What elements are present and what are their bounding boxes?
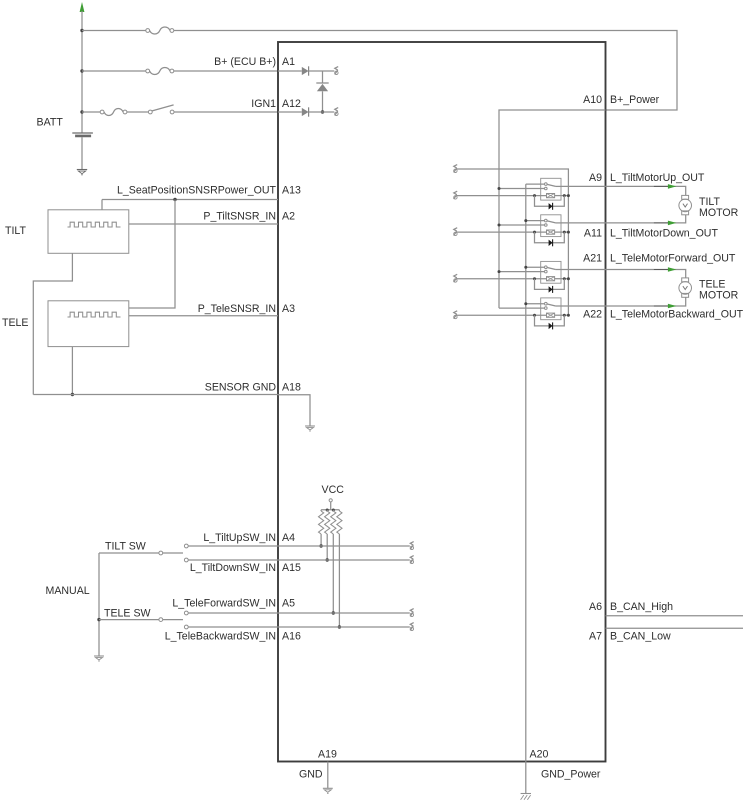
TELE SW backward contact	[184, 625, 188, 629]
junction R4/A16	[338, 625, 341, 628]
wire break (internal IGN)	[335, 108, 338, 112]
svg-text:A19: A19	[318, 749, 337, 761]
wire diode D1 to internal B+	[309, 70, 335, 72]
flyback diode loop K3	[535, 279, 565, 290]
wire L_TiltMotorUp_OUT to tilt motor	[606, 186, 686, 195]
relay K3 (tele forward) box	[541, 261, 561, 283]
wire internal A16 line	[278, 626, 410, 628]
resistor R2 (TiltDown pull-up)	[325, 511, 330, 534]
relay K1 (tilt up) upper contact	[545, 183, 548, 186]
wire battery to ground	[81, 137, 83, 169]
wire relay K4 (tele backward) output to pin	[561, 305, 606, 307]
TILT sensor pulse symbol	[68, 222, 121, 227]
wire break (coil feed)	[454, 165, 457, 169]
fuse F3	[100, 110, 104, 114]
svg-text:A15: A15	[282, 562, 301, 574]
wire TiltUp switch to pin A4	[188, 545, 278, 547]
junction coil left / diode	[533, 194, 536, 197]
wire pin A20 to chassis ground	[525, 762, 527, 794]
svg-text:A4: A4	[282, 532, 295, 544]
ECU connector box	[278, 42, 606, 762]
svg-text:A1: A1	[282, 56, 295, 68]
TILT SW common contact	[159, 551, 163, 555]
wire fuse F3 to ignition switch	[127, 111, 148, 113]
wire zener branch from B+ line	[322, 71, 324, 83]
relay K2 (tilt down) box	[541, 215, 561, 237]
svg-text:A22: A22	[583, 309, 602, 321]
svg-text:A12: A12	[282, 98, 301, 110]
wire tele motor return to L_TeleMotorBackward_OUT	[606, 297, 686, 306]
svg-text:A10: A10	[583, 94, 602, 106]
svg-text:B_CAN_High: B_CAN_High	[610, 601, 673, 613]
wire break (A16 internal)	[410, 623, 413, 627]
svg-text:TELE: TELE	[2, 317, 29, 329]
relay K1 (tilt up) upper contact feed	[526, 183, 545, 185]
wire relay common coil feed	[457, 169, 569, 315]
junction coil right / diode	[563, 314, 566, 317]
svg-text:A5: A5	[282, 598, 295, 610]
TILT SW up contact	[184, 544, 188, 548]
wire relay K1 (tilt up) coil to feed bus	[555, 195, 569, 197]
tilt motor M1	[682, 195, 689, 199]
wire relay K4 (tele backward) coil to feed bus	[555, 314, 569, 316]
wire VCC to resistor bank	[330, 502, 332, 510]
flyback diode D4	[549, 240, 553, 246]
resistor R4 (TeleBackward pull-up)	[337, 511, 342, 534]
wire break (internal B+)	[335, 67, 338, 71]
relay K2 (tilt down) coil	[547, 230, 555, 234]
wire L_TeleMotorForward_OUT to tele motor	[606, 270, 686, 278]
svg-text:A11: A11	[584, 228, 602, 240]
wire pin A1 to diode D1	[278, 70, 302, 72]
svg-text:P_TeleSNSR_IN: P_TeleSNSR_IN	[198, 303, 276, 315]
junction VCC bar right	[332, 509, 335, 512]
junction coil right / diode	[563, 194, 566, 197]
power flow arrow (green, up)	[80, 2, 85, 12]
svg-text:L_TeleForwardSW_IN: L_TeleForwardSW_IN	[172, 598, 276, 610]
tele motor M2	[682, 278, 689, 282]
wire tilt motor return to L_TiltMotorDown_OUT	[606, 215, 686, 223]
svg-text:A3: A3	[282, 303, 295, 315]
junction coil left / diode	[533, 314, 536, 317]
wire B+_Power feed to right side	[174, 31, 677, 111]
VCC terminal circle	[329, 499, 332, 502]
wire relay K3 (tele forward) output to pin	[561, 269, 606, 271]
junction on rail at IGN1 branch	[80, 110, 83, 113]
wire ECU B+ feed to pin A1	[174, 70, 278, 72]
svg-text:A9: A9	[589, 172, 602, 184]
wire battery positive rail	[81, 11, 83, 133]
TELE SW pole arm	[163, 619, 183, 621]
relay K3 (tele forward) pole arm	[547, 268, 555, 270]
relay K3 (tele forward) lower contact feed (B+)	[499, 271, 545, 273]
wire sensor power branch to TELE sensor	[129, 200, 175, 309]
junction on rail at ECU B+ branch	[80, 69, 83, 72]
wire break (A15 internal)	[410, 556, 413, 560]
wire break (relay K2 coil drive)	[454, 228, 457, 232]
wire relay K3 (tele forward) coil drive line	[457, 278, 547, 280]
flyback diode D6	[549, 323, 553, 329]
wire R3 to A5 line	[332, 534, 334, 613]
TELE sensor pulse symbol	[68, 312, 121, 317]
wire sensor power to TILT sensor	[101, 200, 103, 210]
svg-text:L_TeleBackwardSW_IN: L_TeleBackwardSW_IN	[165, 631, 276, 643]
TILT SW down contact	[184, 558, 188, 562]
svg-text:A13: A13	[282, 185, 301, 197]
svg-text:BATT: BATT	[37, 117, 64, 129]
junction on rail at B+_Power branch	[80, 29, 83, 32]
relay K2 (tilt down) lower contact	[545, 224, 548, 227]
wire relay K4 (tele backward) coil drive line	[457, 314, 547, 316]
wire TeleForward switch to pin A5	[188, 612, 278, 614]
resistor R3 (TeleForward pull-up)	[331, 511, 336, 534]
fuse F2	[146, 69, 150, 73]
current flow arrow (tele forward)	[654, 269, 668, 271]
wire B_CAN_High	[606, 615, 743, 617]
relay K4 (tele backward) pole arm	[547, 304, 555, 306]
wire R4 to A16 line	[338, 534, 340, 627]
wire pin A10 internal B+ bus	[499, 110, 606, 308]
ignition switch (open)	[148, 110, 152, 114]
wire relay K1 (tilt up) output to pin	[561, 185, 606, 187]
svg-text:A16: A16	[282, 631, 301, 643]
wire break (relay K3 coil drive)	[454, 274, 457, 278]
flyback diode D5	[549, 286, 553, 292]
wire break (relay K4 coil drive)	[454, 311, 457, 315]
ground (sensor, internal)	[305, 425, 315, 427]
junction coil feed bus	[567, 194, 570, 197]
wire TELE sensor ground return	[71, 347, 73, 395]
relay K1 (tilt up) pole arm	[547, 184, 555, 186]
wire pin A12 to diode D2	[278, 111, 302, 113]
svg-text:A6: A6	[589, 601, 602, 613]
svg-text:A7: A7	[589, 631, 602, 643]
svg-text:TELE SW: TELE SW	[104, 608, 151, 620]
wire break (relay K1 coil drive)	[454, 191, 457, 195]
relay K2 (tilt down) lower contact feed (B+)	[499, 224, 545, 226]
svg-text:A18: A18	[282, 382, 301, 394]
relay K4 (tele backward) box	[541, 298, 561, 320]
junction R1/A4	[319, 544, 322, 547]
svg-text:MOTOR: MOTOR	[699, 290, 739, 302]
current flow arrow (tilt up)	[654, 185, 668, 187]
relay K3 (tele forward) coil	[547, 277, 555, 281]
junction coil feed bus	[567, 314, 570, 317]
wire A13 sensor power	[102, 199, 278, 201]
wire ignition switch to pin A12	[174, 111, 278, 113]
wire TiltDown switch to pin A15	[188, 559, 278, 561]
resistor bank top bar	[321, 509, 339, 511]
svg-text:TILT: TILT	[5, 225, 27, 237]
wire P_TeleSNSR_IN to pin A3	[129, 315, 278, 317]
junction R3/A5	[332, 611, 335, 614]
svg-text:MANUAL: MANUAL	[46, 585, 90, 597]
wire internal A5 line	[278, 612, 410, 614]
junction coil feed bus	[567, 277, 570, 280]
svg-text:B+_Power: B+_Power	[610, 94, 660, 106]
svg-text:L_SeatPositionSNSRPower_OUT: L_SeatPositionSNSRPower_OUT	[117, 185, 277, 197]
ground (manual switches)	[94, 655, 104, 657]
svg-text:A21: A21	[583, 253, 602, 265]
svg-text:L_TiltDownSW_IN: L_TiltDownSW_IN	[190, 562, 276, 574]
junction coil right / diode	[563, 231, 566, 234]
flyback diode loop K2	[535, 232, 565, 243]
junction R2/A15	[326, 558, 329, 561]
wire relay K3 (tele forward) coil to feed bus	[555, 278, 569, 280]
junction coil right / diode	[563, 277, 566, 280]
junction VCC bar left	[326, 509, 329, 512]
wire TeleBackward switch to pin A16	[188, 626, 278, 628]
wire relay K2 (tilt down) output to pin	[561, 222, 606, 224]
svg-text:A20: A20	[530, 749, 549, 761]
svg-text:TELE: TELE	[699, 279, 726, 291]
TILT SW pole arm	[163, 552, 183, 554]
wire diode D2 to internal IGN	[309, 111, 335, 113]
TELE position sensor box	[48, 301, 129, 347]
chassis ground (A20 GND_Power)	[521, 793, 531, 795]
wire SENSOR GND to pin A18	[33, 394, 278, 396]
wire pin A19 to ground	[327, 762, 329, 789]
wire P_TiltSNSR_IN to pin A2	[129, 223, 278, 225]
svg-text:L_TiltMotorDown_OUT: L_TiltMotorDown_OUT	[610, 228, 718, 240]
junction coil left / diode	[533, 277, 536, 280]
relay K3 (tele forward) lower contact	[545, 270, 548, 273]
flyback diode loop K4	[535, 315, 565, 326]
relay K1 (tilt up) lower contact	[545, 187, 548, 190]
svg-text:SENSOR GND: SENSOR GND	[205, 382, 277, 394]
wire B+_Power feed (top)	[82, 30, 148, 32]
relay K4 (tele backward) lower contact feed (B+)	[499, 307, 545, 309]
wire B_CAN_Low	[606, 627, 743, 629]
TILT position sensor box	[48, 210, 129, 254]
junction zener / A12 line	[321, 110, 324, 113]
wire break (A5 internal)	[410, 609, 413, 613]
wire internal A18 to ground	[278, 395, 310, 426]
fuse F1	[146, 29, 150, 33]
TELE SW forward contact	[184, 611, 188, 615]
relay K3 (tele forward) upper contact	[545, 266, 548, 269]
wire break (A4 internal)	[410, 542, 413, 546]
relay K3 (tele forward) upper contact feed	[526, 266, 545, 268]
junction sensor power split	[173, 198, 176, 201]
svg-text:MOTOR: MOTOR	[699, 207, 739, 219]
relay K1 (tilt up) lower contact feed (B+)	[499, 188, 545, 190]
relay K4 (tele backward) lower contact	[545, 307, 548, 310]
svg-text:P_TiltSNSR_IN: P_TiltSNSR_IN	[203, 211, 276, 223]
relay K4 (tele backward) upper contact feed	[526, 303, 545, 305]
junction coil feed bus	[567, 231, 570, 234]
relay K2 (tilt down) pole arm	[547, 221, 555, 223]
wire switch common rail	[98, 553, 100, 656]
wire rail to TILT SW common	[99, 552, 159, 554]
junction coil left / diode	[533, 231, 536, 234]
svg-text:L_TeleMotorBackward_OUT: L_TeleMotorBackward_OUT	[610, 309, 743, 321]
svg-text:IGN1: IGN1	[251, 98, 276, 110]
relay K4 (tele backward) upper contact	[545, 302, 548, 305]
svg-text:GND: GND	[299, 769, 323, 781]
svg-text:L_TeleMotorForward_OUT: L_TeleMotorForward_OUT	[610, 253, 736, 265]
svg-text:GND_Power: GND_Power	[541, 769, 601, 781]
junction TELE SW tap	[97, 618, 100, 621]
svg-text:B+ (ECU B+): B+ (ECU B+)	[214, 56, 276, 68]
svg-text:VCC: VCC	[322, 484, 345, 496]
svg-text:L_TiltMotorUp_OUT: L_TiltMotorUp_OUT	[610, 172, 705, 184]
relay K4 (tele backward) coil	[547, 313, 555, 317]
svg-text:B_CAN_Low: B_CAN_Low	[610, 631, 671, 643]
wire R1 to A4 line	[320, 534, 322, 546]
svg-text:L_TiltUpSW_IN: L_TiltUpSW_IN	[203, 532, 276, 544]
wire IGN1 feed	[82, 111, 100, 113]
resistor R1 (TiltUp pull-up)	[319, 511, 324, 534]
battery BATT	[72, 132, 93, 134]
wire internal A15 line	[278, 559, 410, 561]
wire internal A4 line	[278, 545, 410, 547]
current flow arrow (tele backward)	[654, 305, 668, 307]
wire R2 to A15 line	[326, 534, 328, 560]
diode D2	[302, 108, 309, 116]
wire TILT sensor ground return	[33, 253, 72, 394]
wire zener to IGN1 line	[322, 91, 324, 112]
relay K1 (tilt up) box	[541, 178, 561, 200]
relay K2 (tilt down) upper contact	[545, 219, 548, 222]
flyback diode loop K1	[535, 196, 565, 207]
wire ECU B+ feed	[82, 70, 148, 72]
TELE SW common contact	[159, 618, 163, 622]
wire relay K1 (tilt up) coil drive line	[457, 195, 547, 197]
relay K1 (tilt up) coil	[547, 194, 555, 198]
relay K2 (tilt down) upper contact feed	[526, 220, 545, 222]
flyback diode D3	[549, 203, 553, 209]
junction sensor grounds	[71, 393, 74, 396]
svg-text:TILT: TILT	[699, 196, 721, 208]
wire relay K2 (tilt down) coil drive line	[457, 231, 547, 233]
zener diode Z1	[316, 82, 328, 84]
diode D1	[302, 67, 309, 75]
svg-text:TILT SW: TILT SW	[105, 541, 146, 553]
internal ground bus to A20	[525, 184, 527, 761]
ground (A19 GND)	[323, 787, 333, 789]
svg-text:A2: A2	[282, 211, 295, 223]
wire relay K2 (tilt down) coil to feed bus	[555, 231, 569, 233]
wire rail to TELE SW common	[99, 619, 159, 621]
ground (battery)	[77, 169, 87, 171]
current flow arrow (tilt down)	[654, 222, 668, 224]
